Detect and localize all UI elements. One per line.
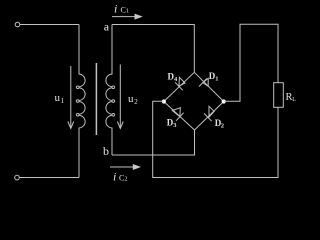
transformer core	[95, 63, 97, 135]
wire node a to bridge top	[112, 25, 194, 73]
svg-text:1: 1	[126, 9, 129, 15]
svg-text:i: i	[113, 169, 116, 183]
arrow u2	[119, 65, 121, 129]
junction dot left node	[162, 99, 166, 103]
bridge edge top-left	[164, 72, 195, 101]
resistor RL	[274, 83, 284, 108]
wire left node to bottom rail and RL bottom	[153, 101, 278, 177]
bridge edge bottom-left	[164, 102, 195, 131]
arrow iC1	[112, 16, 136, 18]
wire bridge bottom to node b	[112, 130, 195, 155]
junction dot right node	[222, 99, 226, 103]
svg-text:i: i	[114, 1, 117, 15]
inductor L1 primary winding u1 (lead + 4 right-bulging turns with left curls)	[76, 25, 85, 178]
diode D2	[209, 106, 214, 117]
svg-text:2: 2	[125, 177, 128, 183]
svg-text:a: a	[104, 19, 110, 33]
arrow u1	[70, 66, 72, 129]
bridge edge top-right	[194, 72, 223, 101]
svg-text:2: 2	[134, 98, 138, 106]
wire bottom-left horizontal	[19, 177, 79, 179]
terminal top-left	[15, 22, 20, 27]
diode D3	[172, 108, 180, 117]
svg-text:u: u	[128, 93, 134, 105]
svg-text:2: 2	[221, 122, 224, 129]
inductor L2 secondary winding u2 (lead + 4 left-bulging turns with right curls)	[106, 25, 115, 156]
arrow iC2	[110, 166, 134, 168]
svg-text:L: L	[292, 97, 296, 103]
diode D4	[179, 77, 185, 86]
diode D1	[203, 78, 208, 86]
svg-text:1: 1	[215, 75, 218, 82]
bridge edge bottom-right	[195, 102, 224, 131]
wire top-left horizontal	[20, 24, 79, 26]
terminal bottom-left	[15, 175, 20, 180]
wire right node up over to RL	[224, 24, 278, 101]
svg-text:1: 1	[61, 97, 65, 105]
svg-text:b: b	[103, 144, 109, 158]
